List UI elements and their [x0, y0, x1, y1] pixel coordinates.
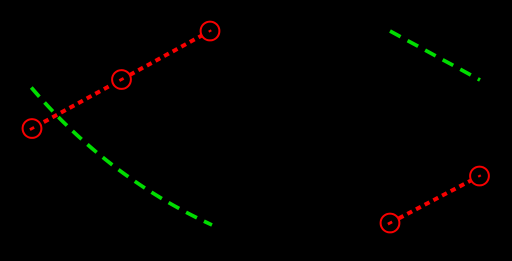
node circle N1	[23, 119, 42, 138]
wire red dotted line L4 (lower-right series)	[390, 176, 480, 223]
node marker N4	[388, 222, 392, 224]
node circle N4	[381, 214, 400, 233]
node marker N5	[478, 175, 481, 176]
node marker N2	[119, 78, 123, 80]
wire red dotted line L1 (upper-left series)	[32, 31, 210, 129]
node circle N3	[201, 22, 220, 41]
node marker N3	[209, 30, 212, 31]
node circle N5	[470, 167, 489, 186]
node marker N1	[30, 127, 34, 129]
wire green dashed line L3 (upper-right series)	[390, 31, 480, 80]
wire green dashed curve L2 (left series)	[31, 88, 212, 226]
node circle N2	[112, 70, 131, 89]
